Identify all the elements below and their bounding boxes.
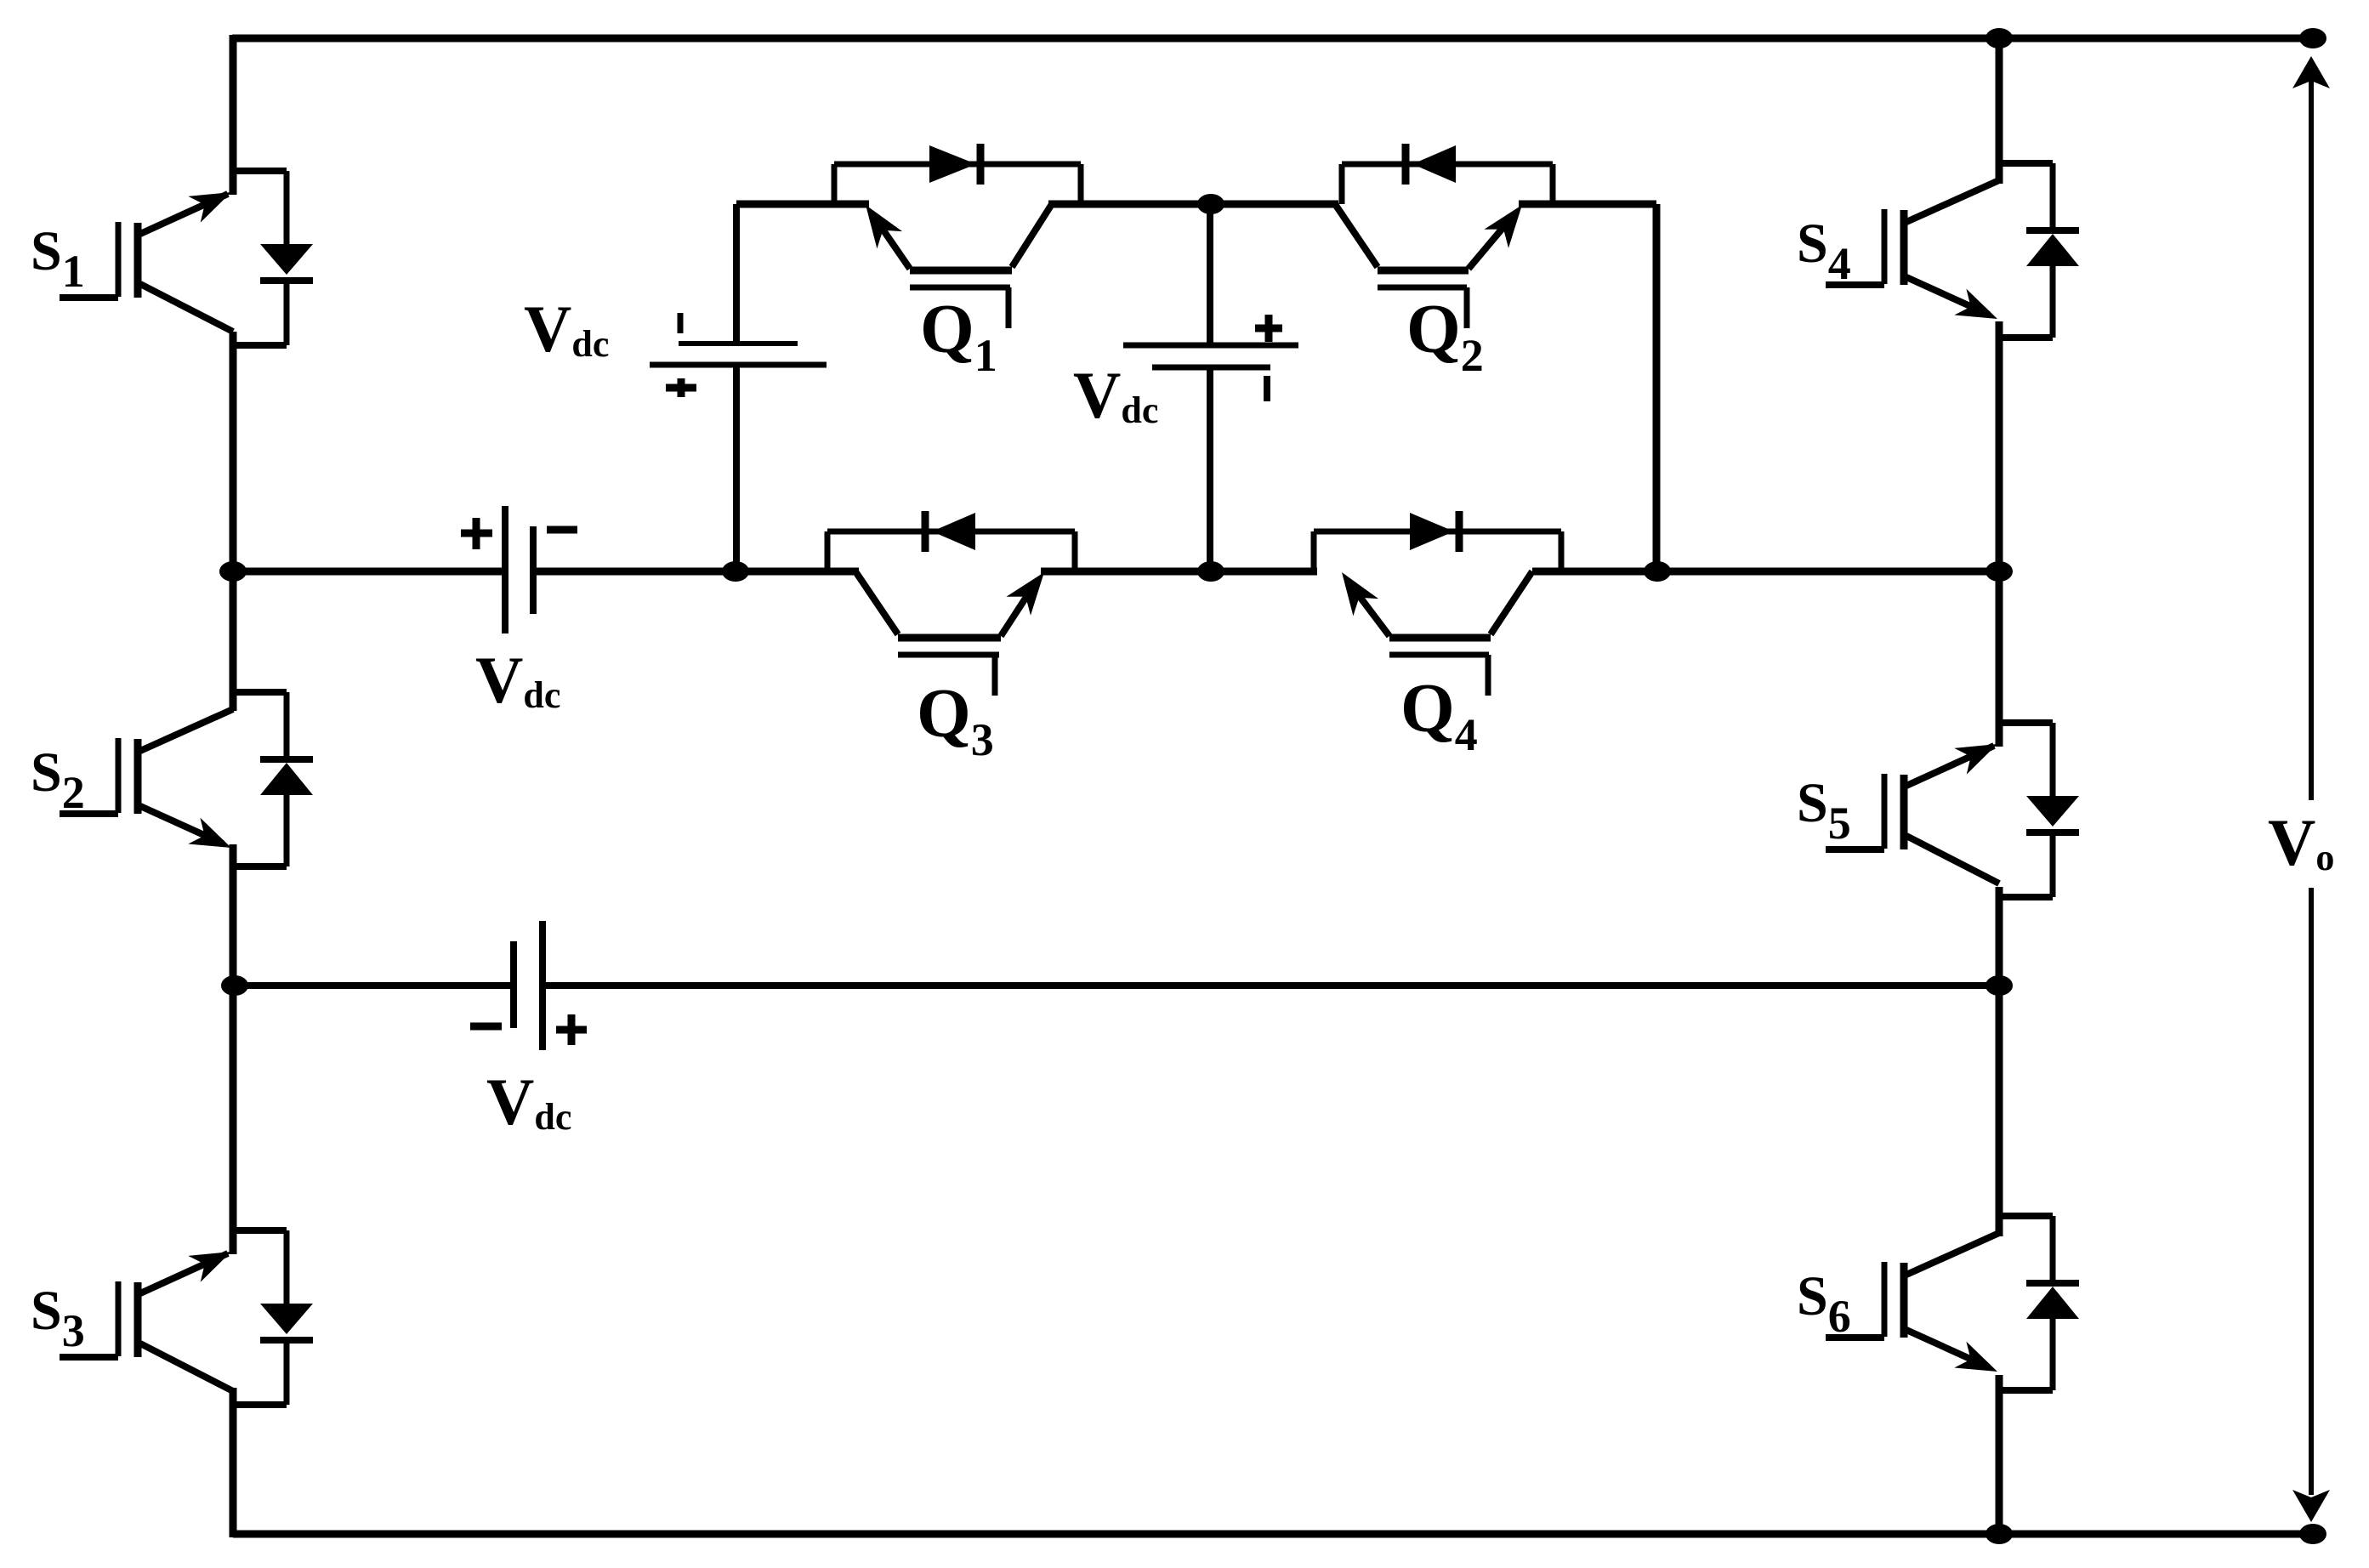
transistor S6 (IGBT) <box>1826 1216 2053 1390</box>
wire: Q2 emitter rail to right corner <box>1519 201 1656 208</box>
polarity mark + (capacitor C2 top) <box>1255 315 1282 342</box>
transistor S5 (IGBT) <box>1826 723 2053 897</box>
junction: node D (row-3 bus / right column) <box>1986 975 2013 996</box>
junction: top bus / S4 collector <box>1986 28 2013 48</box>
transistor S1 (IGBT) <box>60 171 287 345</box>
label S1 <box>31 220 85 297</box>
label S4 <box>1797 213 1851 289</box>
value label Vdc (capacitor C1) <box>524 292 609 366</box>
transistor S4 (IGBT) <box>1826 163 2053 338</box>
polarity mark - (battery row-2, right) <box>547 526 577 534</box>
label Q1 <box>920 290 997 381</box>
capacitor C2 (flying capacitor Vdc, middle) <box>1123 204 1298 571</box>
wire: Q1 emitter to H-bridge top midpoint <box>1048 201 1211 208</box>
diode (antiparallel with S3) <box>260 1230 313 1405</box>
label S6 <box>1797 1265 1851 1342</box>
wire: H-bridge top midpoint to Q2 left corner <box>1211 201 1338 208</box>
diode (antiparallel with S6) <box>2026 1216 2079 1390</box>
wire: left column vertical (S1 collector from top bus) <box>230 35 237 195</box>
diode (antiparallel with Q1) <box>834 144 1081 204</box>
transistor Q4 (IGBT) <box>1342 571 1532 696</box>
diode (antiparallel with Q4) <box>1314 511 1561 571</box>
wire: right column vertical (S6 emitter to bottom bus) <box>1996 1375 2003 1537</box>
diode (antiparallel with S1) <box>260 171 313 345</box>
diode (antiparallel with Q3) <box>827 511 1075 571</box>
wire: bus row 3 - battery Vdc3 to node D <box>543 982 1999 989</box>
label Vo (output voltage) <box>2268 805 2334 879</box>
wire: Q2 right corner vertical down to row-2 bus <box>1653 204 1661 571</box>
polarity mark + (battery row-2, left) <box>461 518 492 549</box>
wire: middle bus row 2 - Q4 right corner to node C <box>1532 568 1999 576</box>
transistor Q1 (IGBT) <box>866 204 1052 328</box>
junction: row-2 bus / capacitor C2 bottom (H-bridge midpoint) <box>1197 561 1224 582</box>
wire: right column vertical (node D to S6) <box>1996 986 2003 1236</box>
output voltage arrow Vo (double-headed, right side) <box>2292 56 2330 1522</box>
wire: left column vertical (node B to S3 collector) <box>230 986 237 1254</box>
value label Vdc (battery row-2) <box>475 643 560 717</box>
wire: right column vertical (top bus to S4) <box>1996 35 2003 184</box>
label S3 <box>31 1280 85 1356</box>
junction: bottom bus / S6 emitter <box>1986 1524 2013 1544</box>
wire: right column vertical (S4 emitter to node C) <box>1996 321 2003 571</box>
wire: bottom DC bus (-3Vdc rail) <box>233 1531 2313 1538</box>
polarity mark - (capacitor C2 bottom) <box>1264 376 1270 401</box>
value label Vdc (battery row-3) <box>486 1065 571 1139</box>
wire: middle bus row 2 - Q3 emitter to Q4 rail <box>1041 568 1317 576</box>
polarity mark + (battery row-3, right) <box>556 1014 587 1045</box>
label Q4 <box>1400 669 1478 760</box>
polarity mark + (capacitor C1 bottom) <box>666 378 696 397</box>
wire: left column vertical (S1 emitter to node A) <box>230 332 237 571</box>
transistor S2 (IGBT) <box>60 692 287 866</box>
junction: node B (left column / row-3 bus) <box>221 975 248 996</box>
transistor S3 (IGBT) <box>60 1230 287 1405</box>
value label Vdc (capacitor C2) <box>1073 358 1158 432</box>
wire: bus row 3 - node B to battery Vdc3 <box>233 982 514 989</box>
junction: top H-bridge rail / capacitor C2 top <box>1197 194 1224 214</box>
diode (antiparallel with S2) <box>260 692 313 866</box>
junction: bottom bus / Vo measurement (bottom right) <box>2299 1524 2326 1544</box>
battery Vdc (row-2 source) <box>505 506 533 633</box>
transistor Q2 (IGBT) <box>1335 204 1522 328</box>
wire: left column vertical (node A to S2 collector) <box>230 571 237 711</box>
wire: middle bus row 2 - node A to battery Vdc2 + <box>232 568 505 576</box>
wire: left column vertical (S2 emitter to node B) <box>230 844 237 986</box>
polarity mark - (capacitor C1 top) <box>678 313 684 333</box>
battery Vdc (row-3 source) <box>514 921 543 1050</box>
wire: top DC bus (+3Vdc rail) <box>232 35 2313 43</box>
wire: middle bus row 2 - battery Vdc2 - to Q3 collector corner <box>533 568 859 576</box>
diode (antiparallel with Q2) <box>1342 144 1553 204</box>
label S2 <box>31 741 85 818</box>
capacitor C1 (flying capacitor Vdc, left) <box>650 204 827 571</box>
wire: Q1 rail from capacitor C1 top corner <box>736 201 869 208</box>
diode (antiparallel with S4) <box>2026 163 2079 338</box>
wire: left column vertical (S3 emitter to bottom bus) <box>230 1388 237 1537</box>
junction: row-2 bus / capacitor C1 bottom <box>722 561 749 582</box>
diode (antiparallel with S5) <box>2026 723 2079 897</box>
label Q3 <box>917 674 994 765</box>
junction: node A (left column / row-2 bus) <box>219 561 247 582</box>
junction: top bus / Vo measurement (top right) <box>2299 28 2326 48</box>
label Q2 <box>1406 290 1484 381</box>
wire: right column vertical (S5 emitter to node D) <box>1996 887 2003 986</box>
transistor Q3 (IGBT) <box>855 571 1044 696</box>
junction: row-2 bus / Q2 emitter branch <box>1644 561 1671 582</box>
label S5 <box>1797 772 1851 849</box>
polarity mark - (battery row-3, left) <box>470 1023 502 1031</box>
junction: node C (row-2 bus / right column) <box>1986 561 2013 582</box>
wire: right column vertical (node C to S5) <box>1996 571 2003 747</box>
